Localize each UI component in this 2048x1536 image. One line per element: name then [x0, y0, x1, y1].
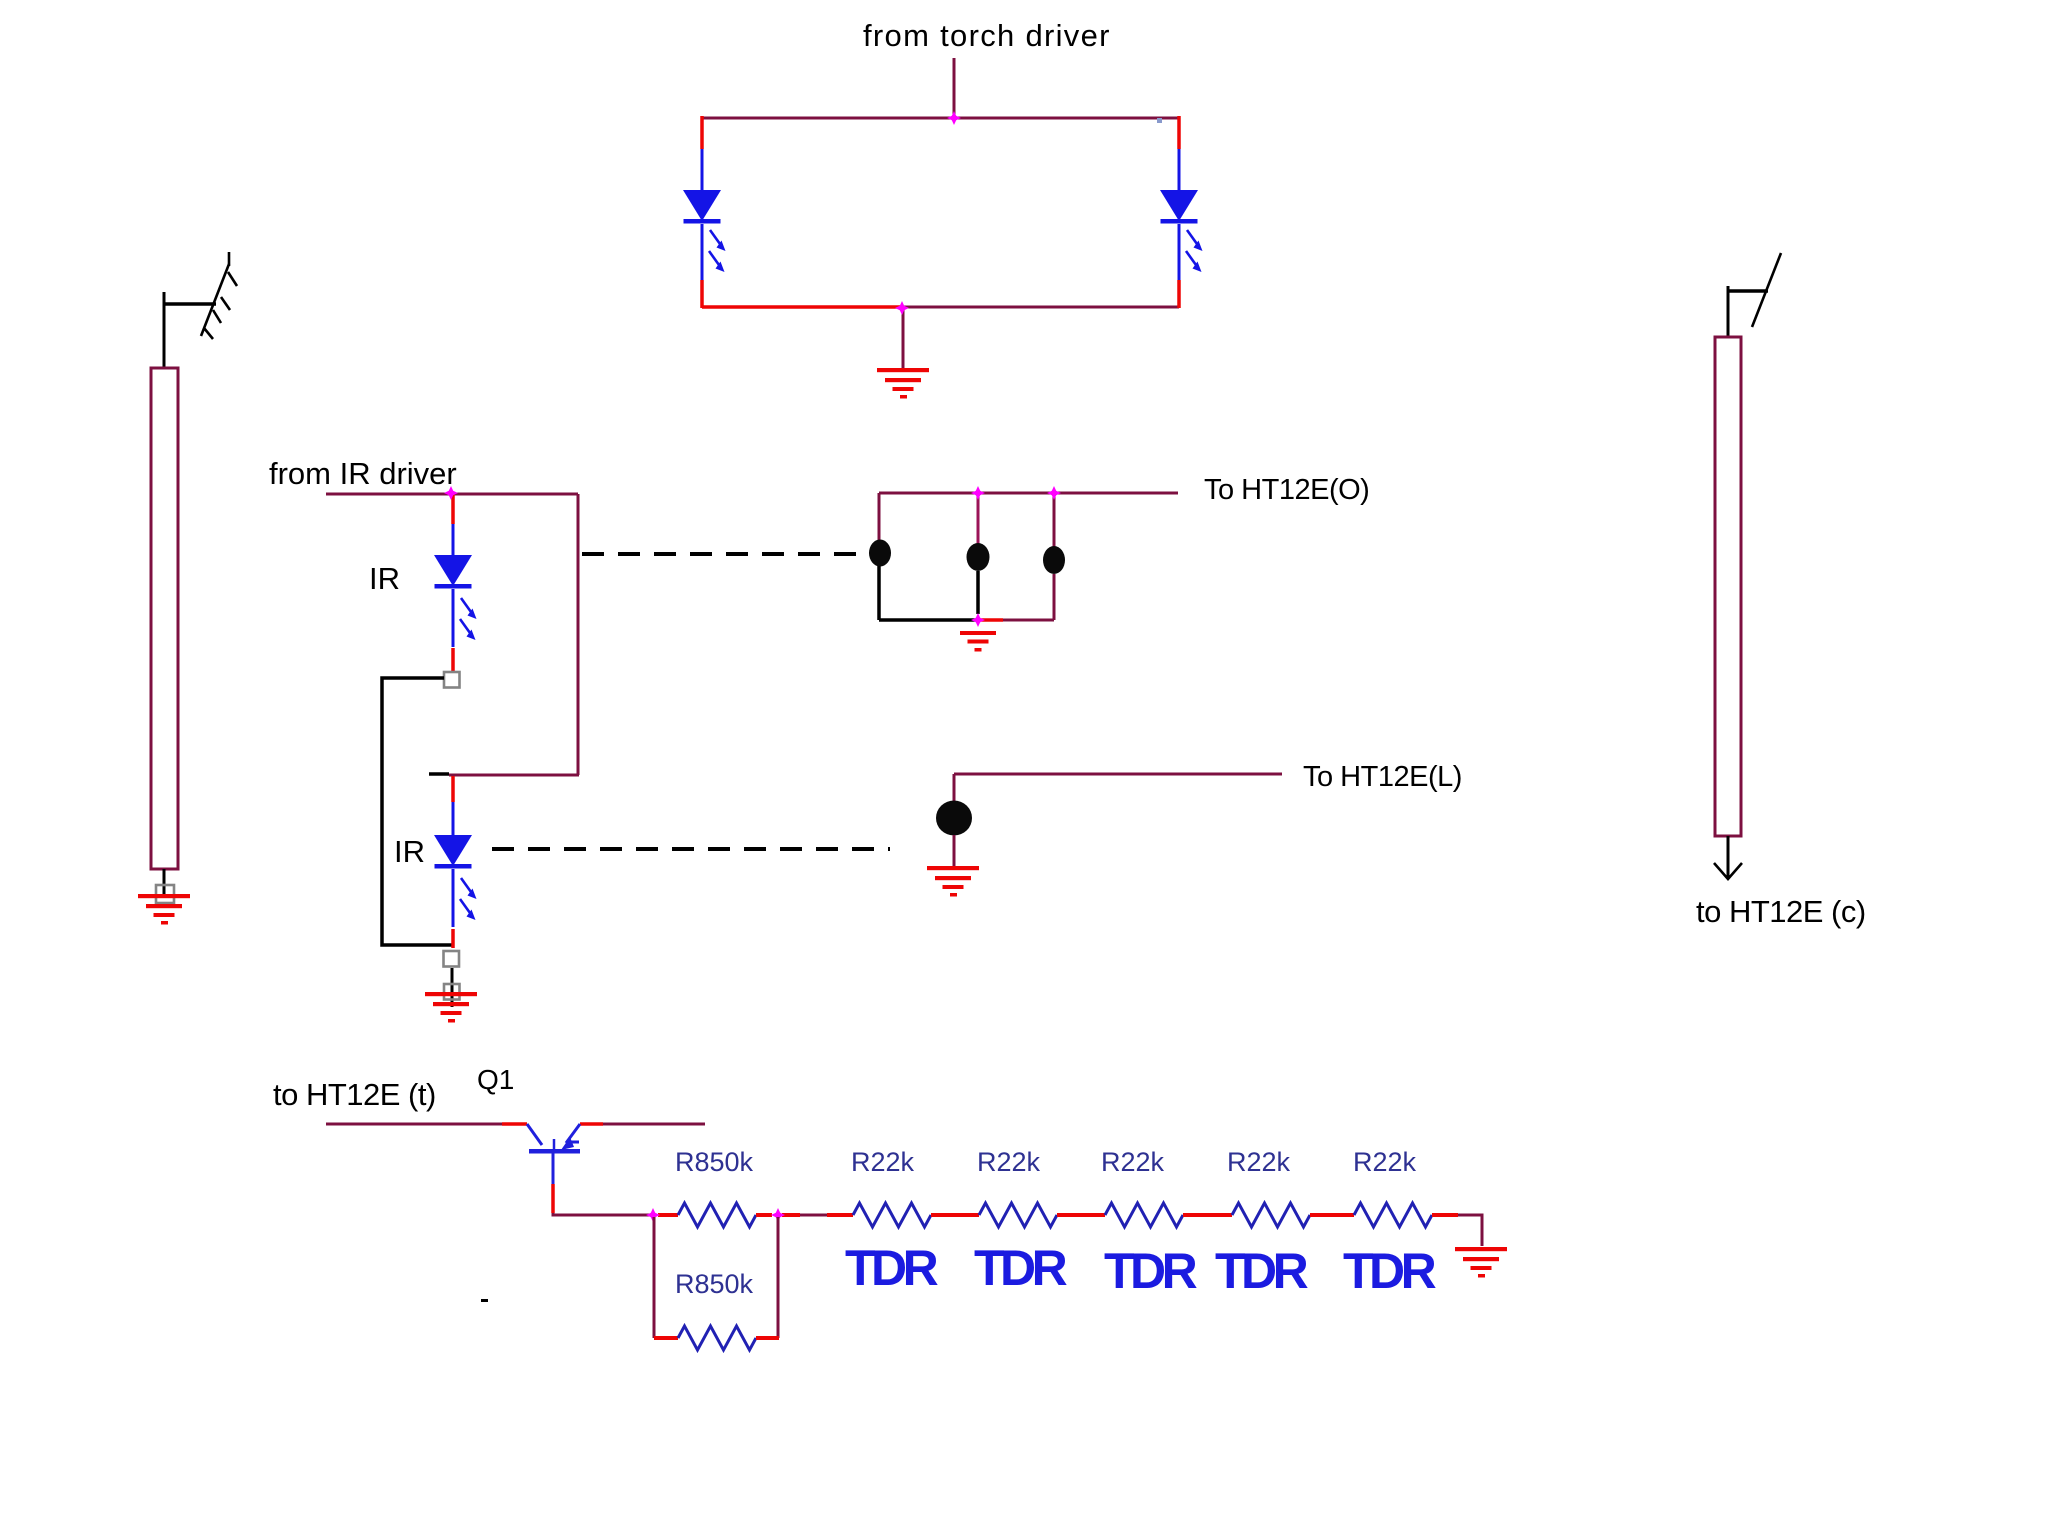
svg-text:to HT12E (c): to HT12E (c) [1696, 894, 1866, 929]
svg-text:R22k: R22k [1101, 1147, 1165, 1177]
svg-text:TDR: TDR [845, 1240, 939, 1296]
svg-text:To HT12E(O): To HT12E(O) [1204, 474, 1369, 506]
svg-text:TDR: TDR [1215, 1243, 1309, 1299]
svg-text:R22k: R22k [851, 1147, 915, 1177]
svg-text:TDR: TDR [1104, 1243, 1198, 1299]
svg-text:TDR: TDR [1343, 1243, 1437, 1299]
svg-text:R850k: R850k [675, 1269, 754, 1299]
svg-text:R22k: R22k [977, 1147, 1041, 1177]
svg-text:IR: IR [369, 561, 400, 596]
svg-text:to HT12E (t): to HT12E (t) [273, 1077, 436, 1112]
svg-text:TDR: TDR [974, 1240, 1068, 1296]
svg-text:R22k: R22k [1227, 1147, 1291, 1177]
svg-text:R850k: R850k [675, 1147, 754, 1177]
svg-text:from torch driver: from torch driver [863, 18, 1111, 53]
svg-text:R22k: R22k [1353, 1147, 1417, 1177]
svg-text:To HT12E(L): To HT12E(L) [1303, 761, 1462, 793]
svg-text:from IR driver: from IR driver [269, 456, 457, 491]
svg-text:IR: IR [394, 834, 425, 869]
svg-text:Q1: Q1 [477, 1064, 514, 1095]
